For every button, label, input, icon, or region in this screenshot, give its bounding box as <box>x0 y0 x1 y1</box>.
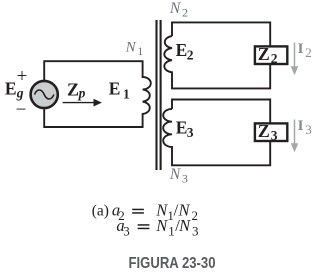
svg-text:1: 1 <box>123 87 130 102</box>
svg-text:(a): (a) <box>92 202 109 219</box>
svg-text:1: 1 <box>138 46 144 58</box>
svg-text:3: 3 <box>271 128 278 143</box>
svg-text:3: 3 <box>182 172 188 186</box>
svg-text:−: − <box>16 99 27 120</box>
svg-text:3: 3 <box>305 122 312 137</box>
svg-text:N: N <box>169 166 182 183</box>
svg-text:Z: Z <box>67 80 79 100</box>
svg-text:2: 2 <box>305 45 312 60</box>
svg-text:N: N <box>155 216 168 235</box>
svg-text:E: E <box>176 40 188 60</box>
svg-text:E: E <box>109 79 121 99</box>
svg-text:2: 2 <box>271 51 278 66</box>
svg-text:FIGURA 23-30: FIGURA 23-30 <box>129 255 216 272</box>
svg-text:g: g <box>16 86 24 101</box>
svg-text:E: E <box>5 79 17 99</box>
svg-text:I: I <box>298 41 304 57</box>
svg-text:2: 2 <box>182 5 188 19</box>
svg-text:Z: Z <box>258 121 270 141</box>
svg-text:+: + <box>17 66 28 87</box>
svg-text:N: N <box>169 0 182 17</box>
svg-text:3: 3 <box>123 224 130 239</box>
svg-text:Z: Z <box>258 44 270 64</box>
svg-text:E: E <box>176 117 188 137</box>
svg-text:3: 3 <box>192 223 199 238</box>
svg-text:2: 2 <box>187 48 194 63</box>
svg-text:p: p <box>78 86 86 101</box>
svg-text:2: 2 <box>192 208 199 223</box>
svg-text:3: 3 <box>187 125 194 140</box>
svg-text:N: N <box>125 40 137 56</box>
svg-text:I: I <box>298 118 304 134</box>
svg-text:N: N <box>178 216 191 235</box>
svg-text:1: 1 <box>168 223 175 238</box>
